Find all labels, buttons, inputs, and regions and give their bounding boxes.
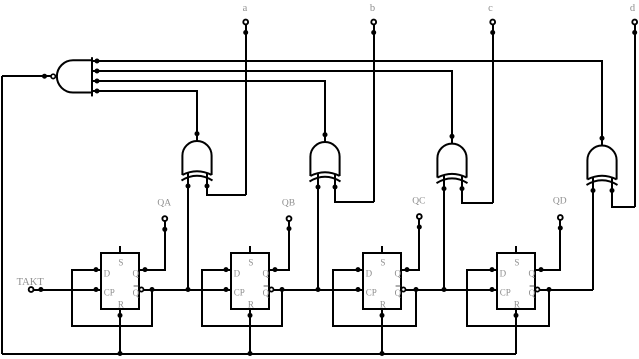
wire xor U5 right input pin bbox=[611, 177, 613, 190]
xor U3 input-side arc bbox=[310, 172, 339, 176]
flip-flop U7 box bbox=[231, 253, 269, 309]
wire xor U3 left input down to Qbar net bbox=[317, 187, 319, 290]
svg-text:QD: QD bbox=[553, 197, 567, 207]
junction dot on QB wire bbox=[287, 226, 292, 231]
junction dot on QA wire bbox=[162, 227, 167, 232]
svg-text:Q: Q bbox=[133, 269, 140, 279]
wire QB vertical to Q output bbox=[288, 221, 290, 270]
dot D pin U9 bbox=[490, 267, 495, 272]
svg-text:S: S bbox=[248, 258, 253, 268]
input terminal b bbox=[371, 20, 376, 25]
wire QD vertical to Q output bbox=[559, 220, 561, 270]
dot xor U4 output pin bbox=[450, 134, 455, 139]
dot nand U1 input pin 1 bbox=[95, 59, 100, 64]
dot xor U5 output pin bbox=[600, 136, 605, 141]
wire input b vertical bbox=[373, 24, 375, 202]
svg-text:CP: CP bbox=[234, 288, 245, 298]
input terminal TAKT bbox=[29, 287, 34, 292]
dot D pin U8 bbox=[356, 267, 361, 272]
wire nand U1 input line 2 to xor U4 top bbox=[92, 71, 452, 144]
junction dot U8 feedback on Qbar net bbox=[414, 287, 419, 292]
junction dot on b wire bbox=[371, 30, 376, 35]
wire U8 D feedback from Qbar bbox=[333, 270, 416, 326]
svg-text:Q: Q bbox=[263, 269, 270, 279]
svg-text:S: S bbox=[514, 258, 519, 268]
dot R pin U7 bbox=[248, 313, 253, 318]
dot Q pin U9 bbox=[539, 267, 544, 272]
nand U1 input bar bbox=[91, 57, 93, 96]
svg-text:Q: Q bbox=[395, 269, 402, 279]
dot xor U3 right input pin bbox=[333, 185, 338, 190]
wire nand U1 output horizontal bbox=[2, 75, 51, 77]
wire nand U1 input line 1 to xor U5 top bbox=[92, 61, 602, 146]
dot xor U2 right input pin bbox=[205, 184, 210, 189]
wire R pin U7 to reset bus bbox=[249, 309, 251, 354]
wire S stub U7 bbox=[249, 246, 251, 253]
xor U4 input-side arc bbox=[437, 174, 466, 178]
output terminal QD bbox=[558, 215, 563, 220]
svg-text:a: a bbox=[243, 3, 248, 14]
wire nand U1 input line 3 to xor U3 top bbox=[92, 81, 325, 142]
dot R pin U8 bbox=[380, 313, 385, 318]
input terminal c bbox=[490, 20, 495, 25]
svg-text:S: S bbox=[118, 258, 123, 268]
output terminal QC bbox=[417, 214, 422, 219]
wire input c vertical bbox=[492, 24, 494, 203]
wire xor U5 right input to input d bbox=[612, 191, 635, 208]
dot xor U4 left input pin bbox=[442, 186, 447, 191]
dot xor U3 left input pin bbox=[316, 185, 321, 190]
inversion bubble Qbar U7 bbox=[269, 287, 273, 291]
dot CP pin U7 bbox=[224, 287, 229, 292]
svg-text:d: d bbox=[630, 3, 636, 14]
svg-text:S: S bbox=[380, 258, 385, 268]
junction dot on a wire bbox=[243, 30, 248, 35]
dot Q pin U6 bbox=[143, 267, 148, 272]
wire xor U3 left input pin bbox=[317, 174, 319, 187]
junction dot xor U2 left input on Qbar net bbox=[186, 287, 191, 292]
svg-text:R: R bbox=[514, 300, 520, 310]
dot R pin U6 bbox=[118, 313, 123, 318]
xor gate U4 body bbox=[437, 144, 466, 178]
xor U2 second xor arc bbox=[182, 176, 213, 181]
wire Qbar U7 to CP U8 bbox=[274, 289, 364, 291]
xor gate U5 body bbox=[587, 146, 616, 180]
wire Qbar U9 to xor U5 left input bbox=[540, 289, 594, 291]
wire xor U4 left input down to Qbar net bbox=[443, 189, 445, 290]
xor U4 second xor arc bbox=[437, 178, 468, 183]
wire xor U2 right input to input a bbox=[207, 186, 246, 195]
inversion bubble Qbar U6 bbox=[139, 287, 143, 291]
wire R pin U8 to reset bus bbox=[381, 309, 383, 354]
dot nand U1 input pin 4 bbox=[95, 89, 100, 94]
wire U7 D feedback from Qbar bbox=[202, 270, 282, 326]
output terminal QA bbox=[162, 216, 167, 221]
junction dot on QD wire bbox=[558, 226, 563, 231]
dot Q pin U7 bbox=[273, 267, 278, 272]
flip-flop U8 box bbox=[363, 253, 401, 309]
wire input a vertical bbox=[245, 24, 247, 195]
wire xor U4 right input to input c bbox=[462, 189, 493, 203]
wire QC vertical to Q output bbox=[418, 219, 420, 270]
dot D pin U6 bbox=[94, 267, 99, 272]
wire xor U3 right input to input b bbox=[335, 187, 374, 202]
xor U5 second xor arc bbox=[587, 180, 618, 185]
xor gate U3 body bbox=[310, 142, 339, 176]
dot CP pin U8 bbox=[356, 287, 361, 292]
wire xor U2 right input pin bbox=[206, 173, 208, 186]
wire xor U2 left input pin bbox=[187, 173, 189, 186]
nand U1 output inversion bubble bbox=[51, 74, 55, 78]
wire S stub U6 bbox=[119, 246, 121, 253]
junction dot U8 R on reset bus bbox=[380, 351, 385, 356]
wire TAKT to U6 CP bbox=[34, 289, 102, 291]
svg-text:D: D bbox=[366, 269, 373, 279]
wire xor U4 right input pin bbox=[461, 175, 463, 188]
wire xor U2 left input down to Qbar net bbox=[187, 186, 189, 290]
dot nand U1 input pin 3 bbox=[95, 79, 100, 84]
wire xor U4 left input pin bbox=[443, 175, 445, 188]
wire Q output U9 to QD bbox=[535, 228, 560, 270]
xor gate U2 body bbox=[182, 141, 211, 175]
wire S stub U9 bbox=[515, 246, 517, 253]
dot CP pin U9 bbox=[490, 287, 495, 292]
junction dot xor U3 left input on Qbar net bbox=[316, 287, 321, 292]
input terminal d bbox=[632, 20, 637, 25]
svg-text:Q: Q bbox=[529, 269, 536, 279]
dot CP pin U6 bbox=[94, 287, 99, 292]
svg-text:QA: QA bbox=[157, 199, 171, 209]
svg-text:CP: CP bbox=[104, 288, 115, 298]
wire Q output U6 to QA bbox=[139, 229, 165, 270]
svg-text:QC: QC bbox=[412, 197, 425, 207]
dot Q pin U8 bbox=[405, 267, 410, 272]
wire U9 D feedback from Qbar bbox=[467, 270, 549, 326]
wire xor U3 right input pin bbox=[334, 174, 336, 187]
svg-text:CP: CP bbox=[366, 288, 377, 298]
wire S stub U8 bbox=[381, 246, 383, 253]
dot xor U4 right input pin bbox=[460, 186, 465, 191]
svg-text:R: R bbox=[118, 300, 124, 310]
wire Qbar U8 to CP U9 bbox=[406, 289, 498, 291]
junction dot on QC wire bbox=[417, 225, 422, 230]
wire input d vertical bbox=[634, 24, 636, 207]
flip-flop U9 box bbox=[497, 253, 535, 309]
wire R pin U6 to reset bus bbox=[119, 309, 121, 354]
wire QA vertical to Q output bbox=[164, 221, 166, 270]
dot R pin U9 bbox=[514, 313, 519, 318]
svg-text:CP: CP bbox=[500, 288, 511, 298]
junction dot U7 feedback on Qbar net bbox=[280, 287, 285, 292]
wire Qbar U6 to CP U7 bbox=[144, 289, 232, 291]
inversion bubble Qbar U8 bbox=[401, 287, 405, 291]
flip-flop U6 box bbox=[101, 253, 139, 309]
junction dot on nand output bbox=[42, 74, 47, 79]
wire Q output U8 to QC bbox=[401, 227, 419, 270]
nand gate U1 body (output facing left) bbox=[57, 60, 92, 92]
junction dot on c wire bbox=[490, 30, 495, 35]
junction dot U7 R on reset bus bbox=[248, 351, 253, 356]
junction dot on TAKT wire bbox=[38, 287, 43, 292]
wire Q output U7 to QB bbox=[269, 229, 289, 270]
svg-text:R: R bbox=[380, 300, 386, 310]
wire R pin U9 to reset bus bbox=[515, 309, 517, 354]
svg-text:D: D bbox=[104, 269, 111, 279]
xor U2 input-side arc bbox=[182, 171, 211, 175]
dot xor U2 left input pin bbox=[186, 184, 191, 189]
dot xor U5 left input pin bbox=[591, 188, 596, 193]
dot xor U2 output pin bbox=[195, 131, 200, 136]
xor U3 second xor arc bbox=[310, 177, 341, 182]
dot nand U1 input pin 2 bbox=[95, 69, 100, 74]
dot xor U5 right input pin bbox=[610, 188, 615, 193]
wire left vertical reset net bbox=[1, 76, 3, 354]
svg-text:b: b bbox=[370, 3, 375, 14]
output terminal QB bbox=[287, 216, 292, 221]
inversion bubble Qbar U9 bbox=[535, 287, 539, 291]
wire U6 D feedback from Qbar bbox=[72, 270, 152, 326]
svg-text:c: c bbox=[488, 3, 493, 14]
wire xor U5 left input down to Qbar net bbox=[592, 191, 594, 291]
svg-text:D: D bbox=[500, 269, 507, 279]
wire xor U5 left input pin bbox=[592, 177, 594, 190]
dot D pin U7 bbox=[224, 267, 229, 272]
dot xor U3 output pin bbox=[323, 132, 328, 137]
input terminal a bbox=[243, 20, 248, 25]
svg-text:R: R bbox=[248, 300, 254, 310]
svg-text:QB: QB bbox=[282, 199, 295, 209]
wire bottom reset bus bbox=[2, 353, 516, 355]
wire nand U1 input line 4 to xor U2 top bbox=[92, 91, 197, 141]
junction dot U6 R on reset bus bbox=[118, 351, 123, 356]
junction dot U6 feedback on Qbar net bbox=[150, 287, 155, 292]
junction dot on d wire bbox=[632, 30, 637, 35]
svg-text:D: D bbox=[234, 269, 241, 279]
junction dot xor U4 left input on Qbar net bbox=[442, 287, 447, 292]
xor U5 input-side arc bbox=[587, 176, 616, 180]
junction dot U9 feedback on Qbar net bbox=[547, 287, 552, 292]
